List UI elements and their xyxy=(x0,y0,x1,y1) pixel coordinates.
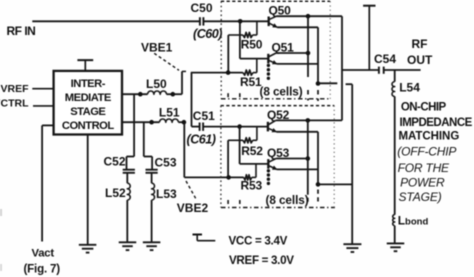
wire output tap xyxy=(342,69,379,71)
node emitter bus cell1 xyxy=(316,81,321,86)
node collector rail cell2 xyxy=(306,118,311,123)
transistor Q51 xyxy=(267,54,269,64)
svg-text:(C61): (C61) xyxy=(187,133,216,147)
svg-text:C52: C52 xyxy=(104,154,126,168)
wire collector rail cell1 xyxy=(277,15,343,17)
capacitor C50 xyxy=(199,17,201,25)
wire emitter join cell1 segment b xyxy=(346,83,353,85)
wire VREF input xyxy=(32,88,53,90)
wire Q53 collector xyxy=(276,158,308,160)
svg-text:STAGE: STAGE xyxy=(70,106,106,118)
wire L50 row xyxy=(122,93,148,95)
resistor R51 xyxy=(243,70,253,75)
scan artifacts left edge xyxy=(0,209,2,216)
wire R50-R51 left rail xyxy=(227,35,229,73)
wire collector bus cell2 xyxy=(307,120,309,194)
wire collector bus cell1 dashed continuation xyxy=(307,90,309,101)
node Q51 collector xyxy=(306,51,311,56)
node emitter bus cell2 xyxy=(316,182,321,187)
wire VBE1 pointer dashed xyxy=(154,53,179,70)
svg-text:VCC = 3.4V: VCC = 3.4V xyxy=(229,234,288,247)
inductor L51 xyxy=(160,119,179,122)
svg-text:VBE1: VBE1 xyxy=(141,41,173,55)
svg-text:VBE2: VBE2 xyxy=(177,201,209,215)
wire R51 extension to C51 drop xyxy=(191,73,193,127)
transistor Q53 xyxy=(267,159,269,169)
wire emitter bus cell1 dashed continuation xyxy=(317,90,319,101)
svg-text:(Fig. 7): (Fig. 7) xyxy=(24,263,61,276)
capacitor C54 xyxy=(378,67,380,74)
svg-text:VREF = 3.0V: VREF = 3.0V xyxy=(229,254,294,267)
node L50 row left xyxy=(138,92,143,97)
wire RF OUT lead xyxy=(384,69,421,71)
ground under control block xyxy=(79,244,97,246)
wire R-ladder rails cell2 dashed continuation xyxy=(227,200,229,206)
wire emitter bus cell1 xyxy=(317,27,319,83)
power VCC above control block xyxy=(77,59,93,61)
node Q53 collector xyxy=(306,156,311,161)
inductor L52 xyxy=(126,173,128,183)
node collector rail cell1 xyxy=(306,14,311,19)
node L51 row right xyxy=(182,120,187,125)
svg-text:R52: R52 xyxy=(241,144,263,158)
transistor Q50 xyxy=(268,17,270,27)
node cells ellipsis under Q53 xyxy=(267,169,270,172)
svg-text:C50: C50 xyxy=(191,1,213,15)
node R51 row xyxy=(226,70,231,75)
ground under L53 xyxy=(143,241,161,243)
power VCC top-right xyxy=(363,5,375,7)
wire bias bus cell2 xyxy=(239,127,241,164)
svg-text:(C60): (C60) xyxy=(193,27,222,41)
inductor L bond xyxy=(393,215,395,226)
svg-text:RF IN: RF IN xyxy=(7,24,36,38)
svg-text:L50: L50 xyxy=(146,77,167,91)
wire Q51 emitter xyxy=(277,63,318,65)
svg-text:STAGE): STAGE) xyxy=(399,190,442,204)
cell block 2 dashed box xyxy=(221,105,335,107)
wire L51 row xyxy=(122,121,160,123)
svg-text:MEDIATE: MEDIATE xyxy=(65,92,112,104)
node cells ellipsis under Q51 xyxy=(267,64,270,67)
wire Q51 collector xyxy=(276,52,308,54)
resistor R50 xyxy=(228,34,243,36)
wire collector bus cell2 dashed continuation xyxy=(307,198,309,205)
wire emitter bus cell2 xyxy=(317,132,319,185)
wire R52-R53 left rail xyxy=(227,140,229,177)
wire emitter ground line xyxy=(351,84,353,244)
svg-text:OUT: OUT xyxy=(407,53,433,67)
wire collector bus cell1 xyxy=(307,16,309,77)
wire emitter join cell1 segment a xyxy=(318,82,337,84)
wire VCTRL input xyxy=(33,105,54,107)
wire R53 row left extension xyxy=(184,176,243,178)
svg-text:(8 cells): (8 cells) xyxy=(266,193,309,207)
resistor R53 xyxy=(244,175,252,180)
power VCC legend symbol xyxy=(193,234,203,236)
svg-text:VCTRL: VCTRL xyxy=(0,98,29,110)
node base row cell1 xyxy=(238,19,243,24)
wire bias bus cell1 xyxy=(239,21,241,58)
ground main emitter xyxy=(343,243,361,245)
capacitor C53 xyxy=(146,169,158,171)
svg-text:Vact: Vact xyxy=(32,247,55,259)
svg-text:Lbond: Lbond xyxy=(398,214,429,228)
svg-text:C51: C51 xyxy=(193,109,215,123)
svg-text:FOR THE: FOR THE xyxy=(398,161,450,175)
wire R51 row left extension xyxy=(191,72,243,74)
svg-text:(8 cells): (8 cells) xyxy=(260,85,303,99)
inductor L54 xyxy=(394,70,396,82)
inductor L50 xyxy=(148,91,167,94)
svg-text:L54: L54 xyxy=(399,80,420,94)
svg-text:L52: L52 xyxy=(105,186,126,200)
svg-text:R53: R53 xyxy=(241,179,263,193)
node L51 row mid xyxy=(149,120,154,125)
capacitor C51 xyxy=(199,123,201,131)
svg-text:L51: L51 xyxy=(159,106,180,120)
ground under L bond xyxy=(387,242,405,244)
svg-text:MATCHING: MATCHING xyxy=(399,130,460,142)
wire VBE1 switch stub xyxy=(181,71,183,94)
capacitor C52 xyxy=(123,169,135,171)
node R53 row xyxy=(226,175,231,180)
cell block 1 dashed box xyxy=(221,0,330,2)
wire Q52 emitter xyxy=(276,131,318,133)
wire C53 feed from L51 row xyxy=(143,122,145,156)
wire emitter join cell2 xyxy=(318,183,352,185)
svg-text:C54: C54 xyxy=(374,52,396,66)
inductor L53 xyxy=(151,173,153,183)
resistor R52 xyxy=(228,139,243,141)
wire control block ground lead xyxy=(87,135,89,245)
wire collector rail cell2 xyxy=(276,119,342,121)
wire R-ladder rails cell1 dashed continuation xyxy=(227,93,229,99)
svg-text:INTER-: INTER- xyxy=(71,78,106,90)
svg-text:R50: R50 xyxy=(241,38,263,52)
svg-text:L53: L53 xyxy=(156,187,177,201)
svg-text:IMPDEDANCE: IMPDEDANCE xyxy=(400,117,473,129)
wire VBE2 pointer dashed xyxy=(186,181,196,199)
svg-text:VREF: VREF xyxy=(1,83,30,95)
wire Q50 emitter xyxy=(277,26,318,28)
node base row cell2 xyxy=(237,124,242,129)
svg-text:CONTROL: CONTROL xyxy=(62,120,114,132)
ground under L52 xyxy=(119,241,137,243)
wire C52 feed from L50 row xyxy=(133,94,135,156)
wire Vact xyxy=(42,124,54,126)
wire emitter bus cell2 dashed continuation xyxy=(317,190,319,205)
svg-text:POWER: POWER xyxy=(400,176,445,190)
wire base row cell2 xyxy=(203,126,268,128)
node L50 row right xyxy=(171,92,176,97)
wire base row cell1 xyxy=(203,20,268,22)
wire main collector vertical xyxy=(341,16,343,120)
svg-text:RF: RF xyxy=(412,37,428,51)
intermediate stage control block xyxy=(54,71,122,135)
svg-text:ON-CHIP: ON-CHIP xyxy=(401,101,447,113)
svg-text:(OFF-CHIP: (OFF-CHIP xyxy=(397,144,456,158)
wire Q51 base row xyxy=(240,58,268,60)
transistor Q52 xyxy=(267,122,269,132)
svg-text:C53: C53 xyxy=(155,156,177,170)
wire RF IN lead xyxy=(32,20,200,22)
wire Q53 emitter xyxy=(277,168,318,170)
wire Q53 base row xyxy=(240,163,269,165)
wire L51 to R53 row drop xyxy=(183,122,185,177)
